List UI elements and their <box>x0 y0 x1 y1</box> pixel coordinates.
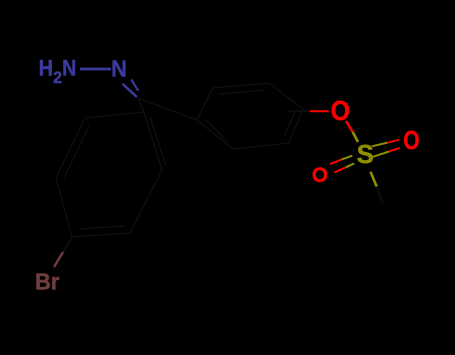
svg-text:Br: Br <box>35 268 59 294</box>
bond ring-Br dark half <box>63 237 72 252</box>
S=O left double bond line 1 red half <box>330 160 342 165</box>
svg-text:H: H <box>39 56 53 81</box>
atom label H2N <box>39 56 77 88</box>
bond S-CH3 dark half <box>377 187 383 203</box>
svg-text:O: O <box>312 163 328 187</box>
svg-text:N: N <box>62 56 76 81</box>
S=O right double bond line 2 olive half <box>373 152 389 157</box>
C=N double bond inner line <box>131 79 138 90</box>
bond N-N <box>80 68 111 71</box>
S=O right double bond line 1 olive half <box>372 143 388 147</box>
bond ring-O dark half <box>289 110 310 112</box>
svg-text:O: O <box>403 125 419 155</box>
bond ring-O red half <box>310 110 329 112</box>
bond C-right-ring <box>138 98 197 120</box>
left benzene ring <box>56 112 166 237</box>
svg-text:2: 2 <box>53 68 62 87</box>
bond O-S red half <box>346 121 353 132</box>
bond ring-Br colored half <box>54 252 63 267</box>
S=O right double bond line 2 red half <box>389 148 400 152</box>
S=O left double bond line 2 olive half <box>346 163 354 167</box>
S=O left double bond line 2 red half <box>334 167 346 172</box>
bond C-left-ring <box>138 98 144 112</box>
bond S-CH3 olive half <box>371 172 377 187</box>
S=O left double bond line 1 olive half <box>341 156 352 160</box>
svg-text:N: N <box>111 56 127 82</box>
C=N double bond main line <box>123 84 137 97</box>
bond O-S olive half <box>353 132 358 142</box>
svg-text:S: S <box>357 141 374 169</box>
right benzene ring <box>197 83 303 149</box>
S=O right double bond line 1 red half <box>388 140 400 143</box>
